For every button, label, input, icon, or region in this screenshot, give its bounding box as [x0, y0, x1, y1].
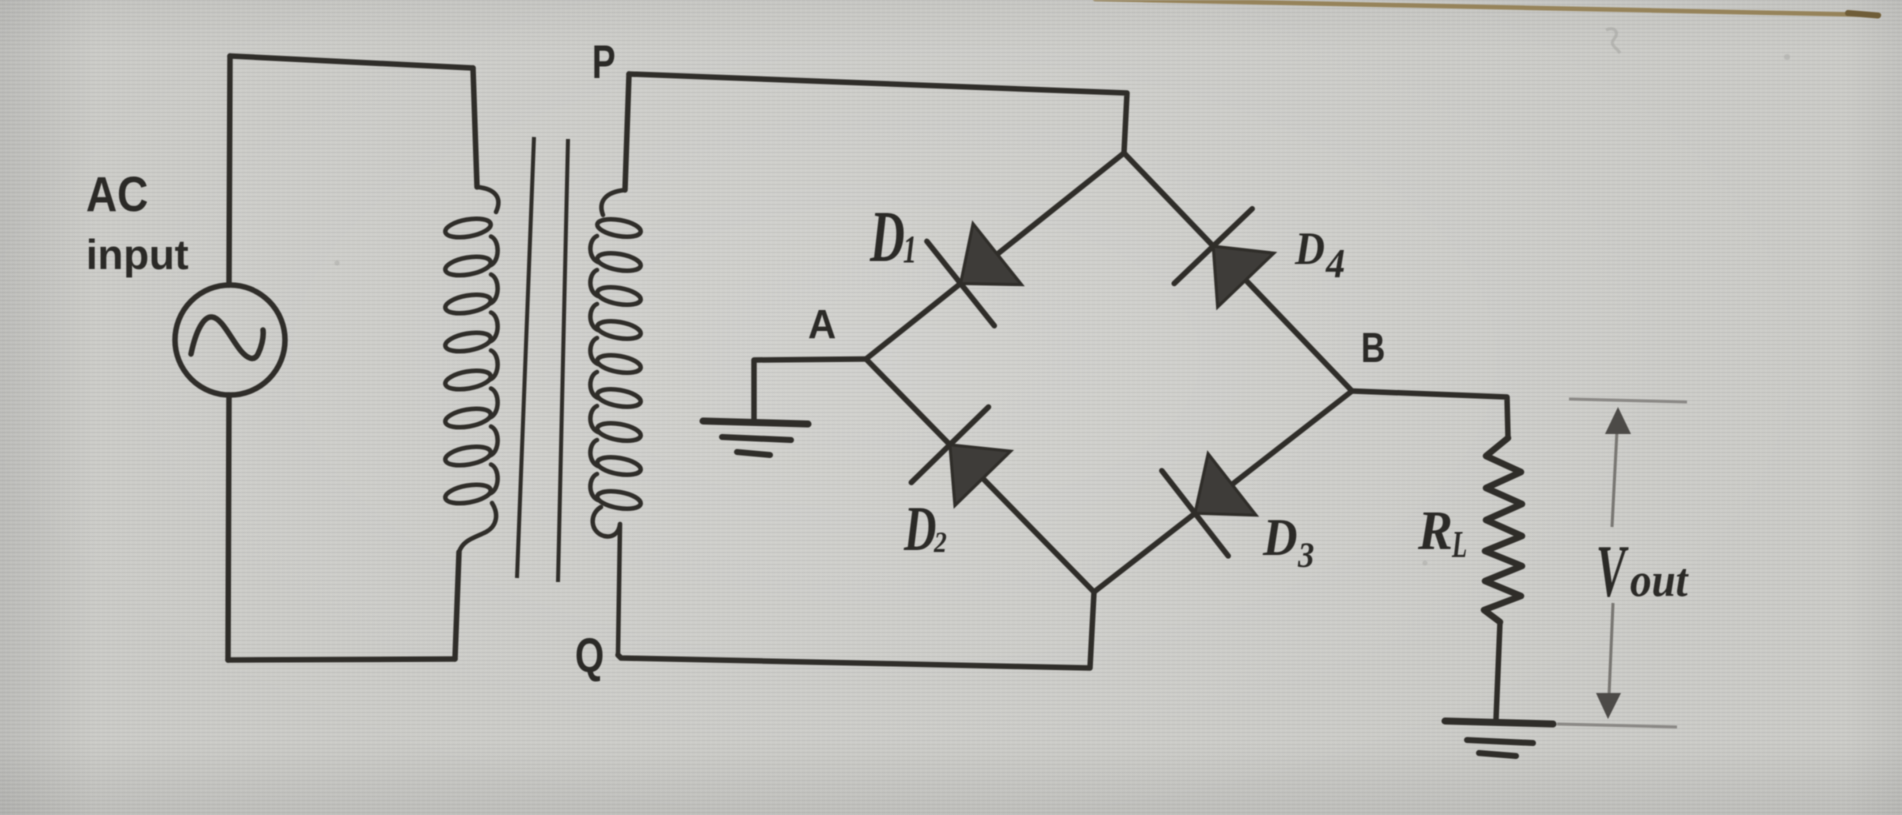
wire: AC loop bottom-right vertical to primary coil — [455, 552, 459, 659]
wire: AC loop left vertical lower — [228, 395, 229, 660]
bridge edge top-right — [1124, 153, 1352, 391]
transformer core line right — [558, 139, 568, 582]
svg-text:D: D — [1262, 508, 1297, 567]
wire: secondary top vertical from P corner — [625, 74, 629, 190]
svg-text:L: L — [1451, 523, 1467, 566]
svg-text:D: D — [1294, 223, 1325, 275]
ground below RL — [1445, 721, 1553, 724]
diode D4 bar — [1174, 209, 1252, 284]
label Vout — [1596, 532, 1629, 613]
dust speck — [335, 261, 340, 266]
dust speck — [1784, 54, 1790, 60]
label Q — [575, 630, 604, 684]
diode D3 bar — [1162, 471, 1228, 556]
resistor RL zigzag — [1484, 438, 1522, 622]
label A — [808, 302, 836, 347]
svg-text:2: 2 — [933, 526, 947, 559]
Vout arrow shaft lower — [1609, 603, 1613, 696]
label input — [86, 231, 189, 278]
transformer primary coil hooks — [477, 187, 498, 212]
Vout arrowhead up — [1605, 407, 1631, 434]
svg-text:B: B — [1361, 326, 1385, 372]
transformer core line left — [517, 137, 534, 578]
svg-text:A: A — [808, 302, 836, 347]
label D3 — [1262, 508, 1297, 567]
wire: AC loop top-right vertical to primary coil — [473, 68, 477, 187]
diode D2 triangle — [950, 445, 1011, 506]
svg-text:P: P — [592, 35, 616, 88]
diode D3 triangle — [1195, 454, 1256, 516]
wire: secondary bottom rail to bridge bottom — [618, 592, 1094, 668]
wire: AC loop top — [230, 56, 473, 68]
svg-text:Q: Q — [575, 630, 604, 684]
diode D2 bar — [911, 407, 988, 483]
Vout dimension line bottom — [1557, 724, 1677, 727]
diode D1 bar — [927, 241, 994, 325]
label D2 — [903, 493, 936, 564]
svg-text:V: V — [1596, 532, 1629, 613]
ground at node A — [703, 421, 808, 424]
Vout dimension line top — [1569, 399, 1687, 402]
label D1 — [869, 197, 905, 277]
label B — [1361, 326, 1385, 372]
wire: AC loop left vertical upper — [229, 56, 230, 285]
dust speck — [1423, 561, 1428, 566]
svg-text:out: out — [1630, 553, 1689, 607]
Vout arrow shaft upper — [1612, 430, 1617, 527]
wire: AC loop bottom — [228, 659, 455, 660]
wire: node A stub to ground — [754, 359, 866, 421]
wire: P to bridge top — [629, 74, 1127, 153]
diode D4 triangle — [1213, 246, 1274, 307]
transformer primary coil loops — [444, 216, 498, 507]
svg-text:input: input — [86, 231, 189, 278]
svg-text:AC: AC — [86, 166, 148, 221]
svg-text:4: 4 — [1325, 241, 1345, 287]
tan screen-edge line top right — [1095, 0, 1879, 15]
diode D1 triangle — [961, 224, 1022, 285]
svg-text:D: D — [869, 197, 905, 277]
label P — [592, 35, 616, 88]
faint dust smudge — [1606, 29, 1620, 53]
transformer secondary coil loops — [590, 216, 642, 511]
label D4 — [1294, 223, 1325, 275]
transformer secondary coil hooks — [601, 190, 625, 215]
bridge edge top-left (node P side) — [866, 153, 1124, 359]
Vout arrowhead down — [1596, 693, 1621, 719]
bridge edge bottom-left — [866, 359, 1094, 592]
svg-text:R: R — [1417, 499, 1453, 561]
svg-text:3: 3 — [1297, 535, 1314, 575]
bridge edge bottom-right — [1094, 391, 1352, 592]
label AC — [86, 166, 148, 221]
AC source circle — [175, 285, 285, 395]
svg-text:1: 1 — [903, 228, 917, 271]
wire: node B to load resistor — [1352, 391, 1508, 438]
wire: resistor to ground — [1496, 622, 1500, 720]
svg-text:D: D — [903, 493, 936, 564]
AC sine symbol — [191, 317, 263, 358]
label RL — [1417, 499, 1453, 561]
